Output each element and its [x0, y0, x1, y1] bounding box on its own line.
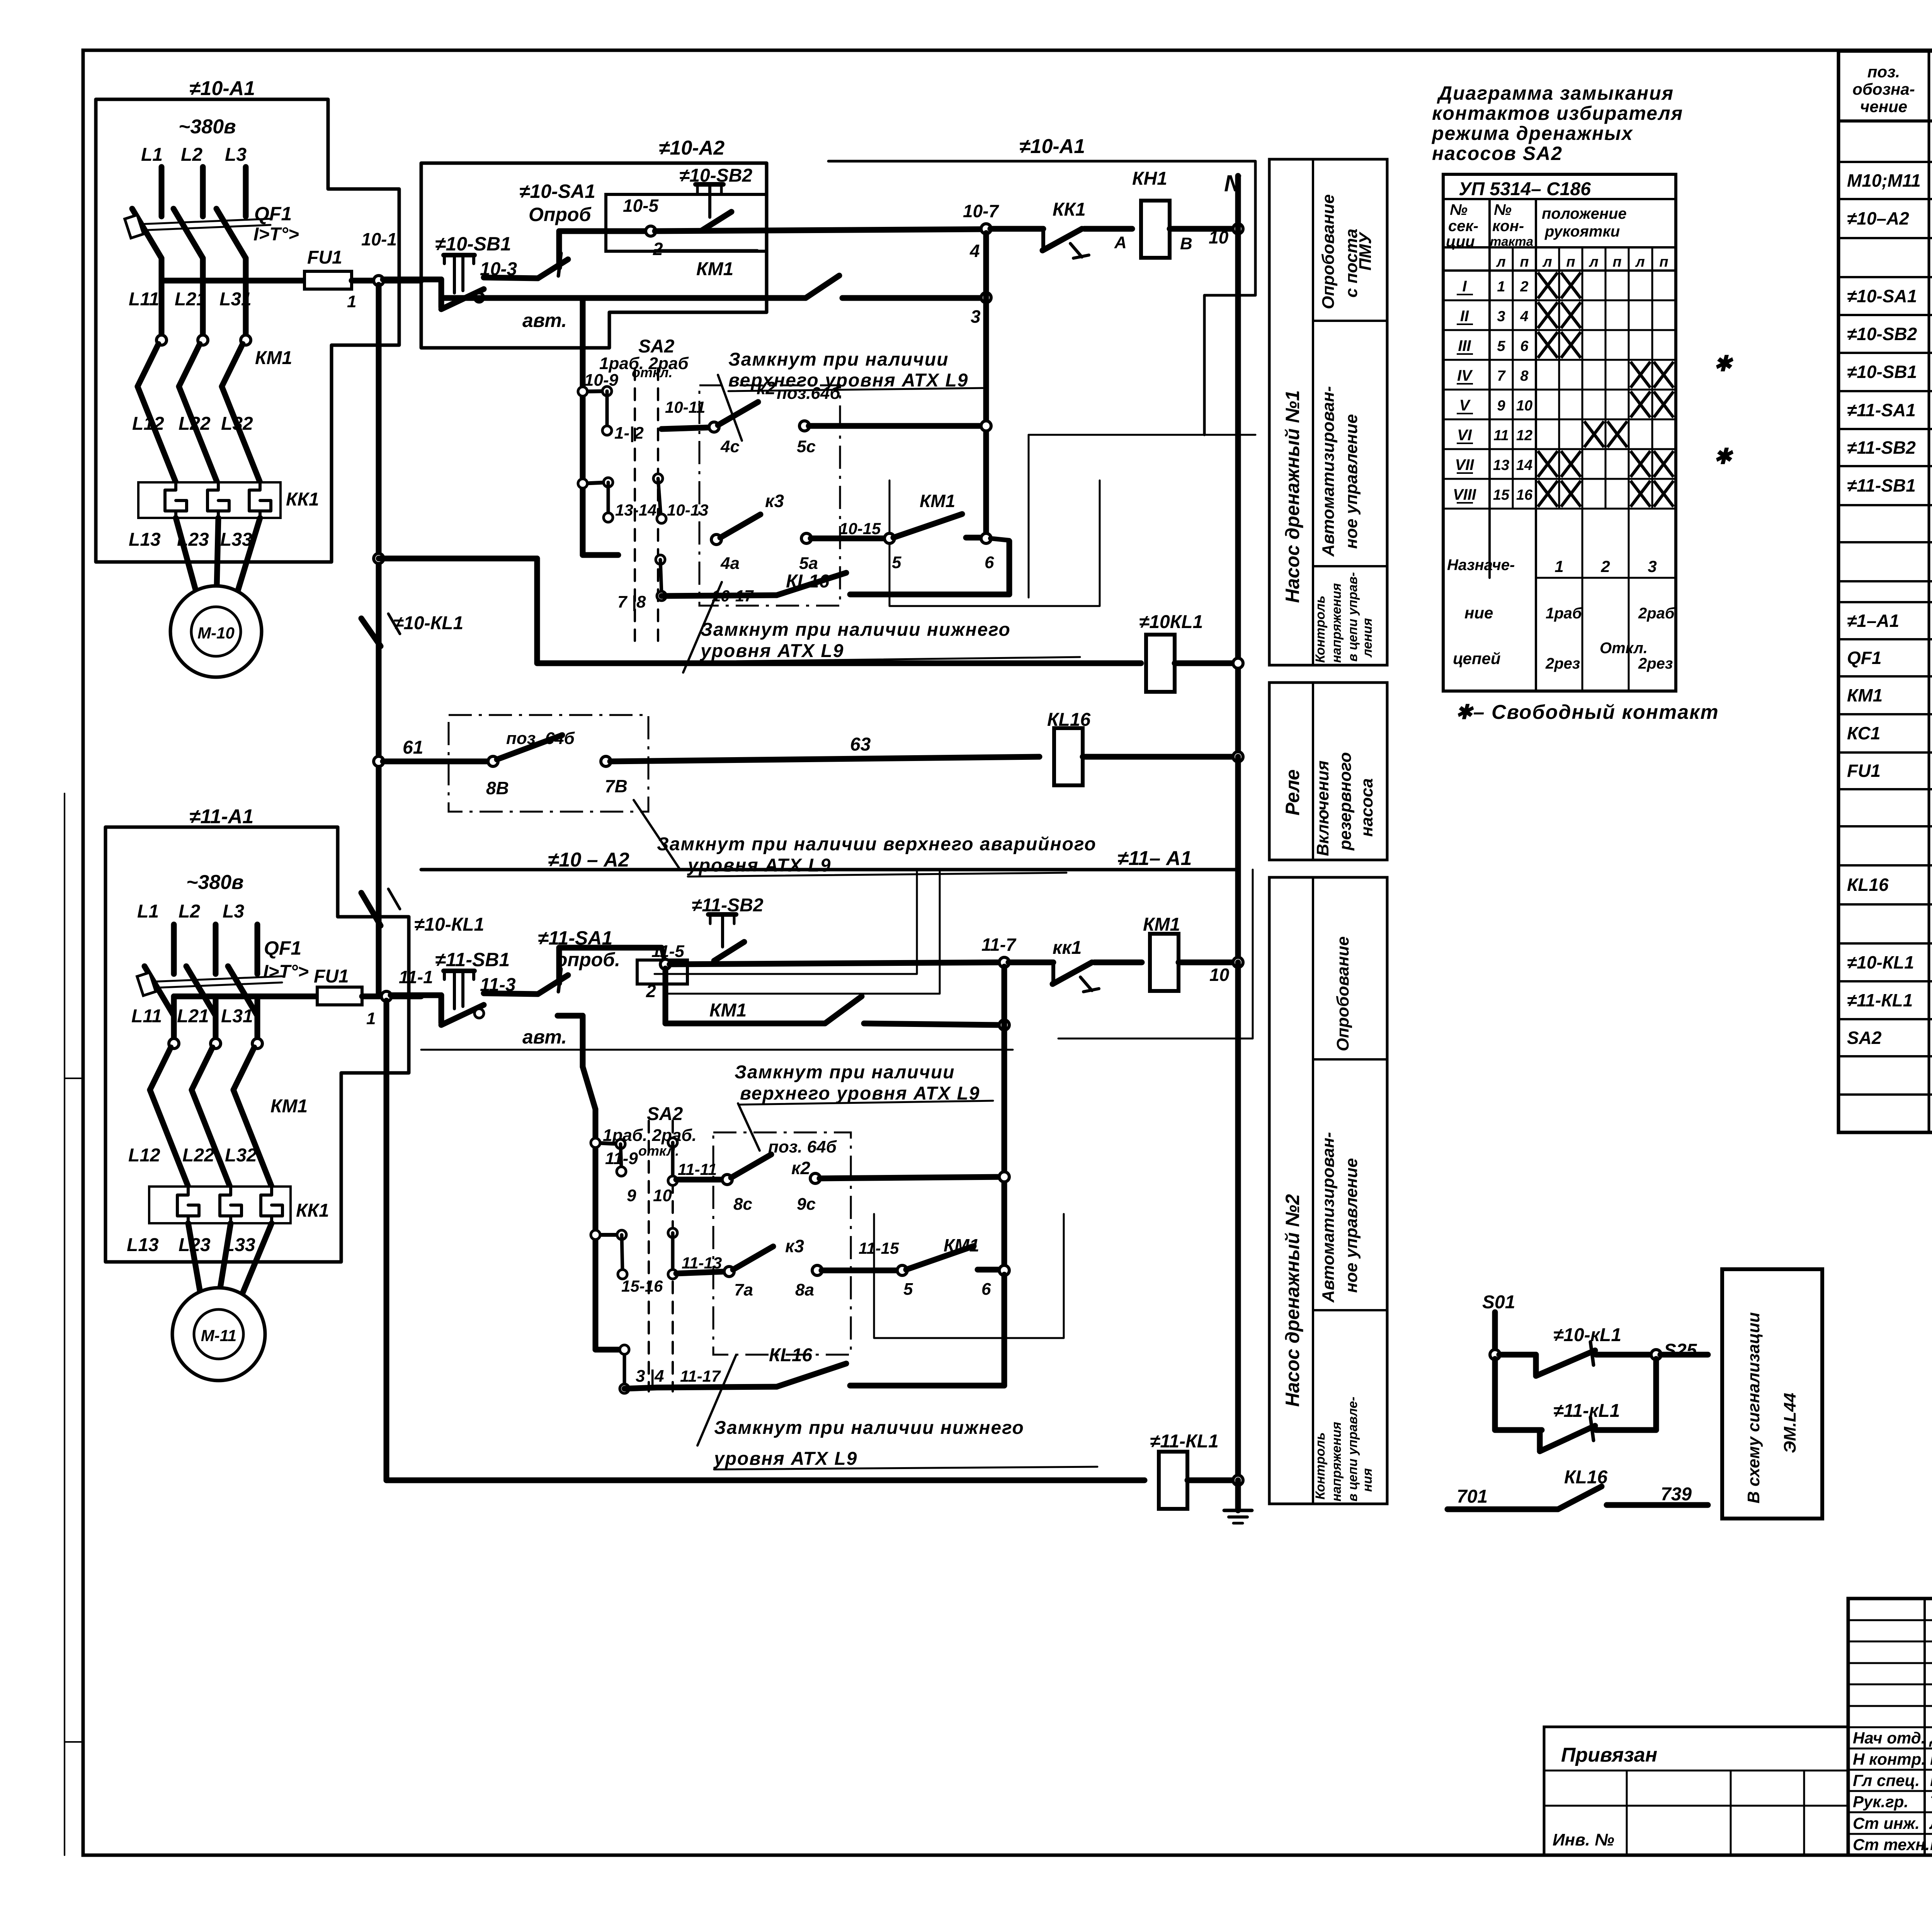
wire node 10-1 to SB1	[383, 277, 441, 283]
svg-text:Замкнут при наличии: Замкнут при наличии	[735, 1062, 955, 1083]
svg-text:Опроб: Опроб	[529, 204, 592, 225]
svg-text:11-1: 11-1	[399, 967, 433, 987]
svg-text:≠11-SA1: ≠11-SA1	[538, 927, 612, 949]
svg-text:13: 13	[1493, 457, 1509, 473]
SA2 section II bridge row1	[653, 474, 663, 483]
svg-text:4а: 4а	[720, 554, 740, 573]
svg-text:≠10-кL1: ≠10-кL1	[1553, 1325, 1621, 1345]
node seal row2	[999, 1020, 1009, 1030]
svg-text:2: 2	[653, 239, 663, 259]
note pointer row1 upper	[718, 375, 742, 441]
node 11-15 row2	[897, 1265, 907, 1275]
svg-text:положение: положение	[1542, 205, 1627, 222]
svg-text:15: 15	[1493, 487, 1510, 503]
thermal relay KK1 heaters row1	[138, 482, 281, 518]
circuit breaker QF1 row2 poles	[145, 966, 174, 1016]
svg-text:ное управление: ное управление	[1342, 1158, 1361, 1293]
svg-text:6: 6	[985, 553, 994, 572]
diagram subheader l p cells	[1536, 247, 1676, 248]
band group1 col2 divider a	[1313, 320, 1387, 322]
svg-text:КК1: КК1	[1053, 199, 1086, 220]
parts table outer	[1838, 51, 1932, 1132]
svg-text:2: 2	[646, 981, 656, 1001]
wire phase stub L3 row2	[255, 924, 260, 974]
svg-text:Опробование: Опробование	[1333, 936, 1352, 1051]
level contact k3 row2	[724, 1267, 734, 1277]
pushbutton #10-SB2 (start)	[696, 182, 723, 187]
svg-text:КL16: КL16	[1047, 710, 1091, 730]
wire KM1 pole L3 row2	[255, 996, 260, 1040]
svg-text:Насос дренажный №1: Насос дренажный №1	[1282, 390, 1303, 603]
svg-text:Реле: Реле	[1282, 770, 1303, 815]
svg-text:14: 14	[1516, 457, 1532, 473]
svg-text:QF1: QF1	[1847, 648, 1881, 668]
svg-text:13-14: 13-14	[615, 501, 656, 519]
svg-text:Н контр.: Н контр.	[1853, 1750, 1926, 1768]
svg-text:III: III	[1458, 337, 1471, 354]
node k2-chain row2	[999, 1172, 1009, 1182]
svg-text:напряжения: напряжения	[1329, 583, 1344, 663]
breaker QF1 linkage bar row2	[152, 976, 282, 982]
neutral bus N middle	[1235, 757, 1241, 962]
svg-text:✱: ✱	[1714, 351, 1734, 376]
svg-text:S25: S25	[1664, 1340, 1697, 1361]
svg-text:9: 9	[1497, 398, 1505, 414]
svg-text:15-16: 15-16	[621, 1277, 663, 1295]
enclosure box KM1-auto row2	[874, 1214, 1064, 1338]
svg-text:Контроль: Контроль	[1313, 596, 1328, 663]
svg-text:VI: VI	[1457, 427, 1472, 444]
svg-text:авт.: авт.	[522, 310, 567, 331]
wire S01 to 10-KL1 contact	[1499, 1352, 1536, 1358]
contactor KM1 auto contact row2	[906, 1246, 974, 1270]
svg-text:V: V	[1459, 397, 1471, 414]
motor M-10	[170, 586, 262, 677]
relay coil #10KL1	[1146, 635, 1175, 692]
node 6 row2	[999, 1265, 1009, 1275]
level contact k2 row1	[709, 422, 719, 432]
svg-text:8В: 8В	[486, 778, 509, 798]
svg-text:≠10-КL1: ≠10-КL1	[414, 914, 484, 935]
svg-text:10-1: 10-1	[361, 229, 397, 249]
svg-text:КМ1: КМ1	[709, 1000, 747, 1021]
svg-text:≠11-SB1: ≠11-SB1	[435, 949, 510, 970]
svg-text:4: 4	[1520, 308, 1528, 325]
diagram data rows	[1443, 300, 1676, 301]
wire motor leads row1	[176, 518, 197, 595]
wire coil 11KL1 to N bus	[1187, 1478, 1238, 1483]
svg-text:В: В	[1180, 234, 1192, 253]
svg-text:Включения: Включения	[1313, 761, 1332, 856]
svg-text:ЭМ.L44: ЭМ.L44	[1781, 1393, 1799, 1453]
svg-text:≠10 – А2: ≠10 – А2	[548, 849, 629, 871]
bus 1 vertical (10-1 down)	[376, 285, 382, 995]
svg-text:режима дренажных: режима дренажных	[1431, 123, 1633, 144]
wire phase stub L2 row2	[213, 924, 219, 974]
SA2 dashed position line b row2	[672, 1121, 674, 1391]
svg-text:≠10-КL1: ≠10-КL1	[1847, 952, 1914, 972]
svg-text:КL16: КL16	[786, 571, 830, 592]
wire 11KL1 coil rung	[386, 1478, 1145, 1483]
pushbutton #10-SB1 (stop)	[439, 279, 444, 307]
svg-text:кк1: кк1	[1053, 938, 1082, 958]
node 2 row1	[646, 226, 656, 236]
svg-text:3 |4: 3 |4	[636, 1367, 664, 1386]
diagram table outer	[1443, 174, 1676, 691]
node 10 row1	[1233, 224, 1243, 234]
wire motor leads row2	[188, 1223, 201, 1297]
wire coil to node 10 row2	[1179, 960, 1238, 965]
wire branch down S01	[1492, 1359, 1498, 1430]
node 11KL1-N	[1233, 1475, 1243, 1485]
svg-text:2рез: 2рез	[1545, 655, 1580, 672]
svg-text:Замкнут при наличии: Замкнут при наличии	[728, 349, 949, 370]
level contact 8V-7V	[488, 756, 498, 766]
svg-text:1: 1	[1497, 279, 1505, 295]
wire phase stub L1 row2	[171, 924, 177, 974]
wire node2 to node 11-7	[670, 962, 1000, 964]
selector #10-SA1 avt branch	[580, 298, 586, 392]
svg-text:11-7: 11-7	[981, 935, 1017, 955]
svg-text:≠1–А1: ≠1–А1	[1847, 611, 1899, 631]
svg-text:4с: 4с	[720, 437, 740, 456]
svg-text:11-11: 11-11	[678, 1160, 717, 1178]
svg-text:к2: к2	[791, 1158, 810, 1178]
svg-text:≠11-SB2: ≠11-SB2	[692, 895, 764, 916]
svg-text:1: 1	[366, 1009, 376, 1028]
svg-text:L13: L13	[127, 1235, 159, 1255]
note pointer emergency	[634, 800, 680, 870]
svg-text:L33: L33	[220, 529, 252, 550]
wire KM1 pole L2 row1	[200, 281, 206, 336]
svg-text:1: 1	[347, 292, 356, 311]
wire SB1 to SA1	[484, 278, 538, 278]
motor M-11	[172, 1288, 265, 1381]
wire coil to node 10	[1170, 226, 1238, 232]
svg-text:739: 739	[1661, 1484, 1692, 1505]
svg-text:10-7: 10-7	[963, 201, 999, 221]
svg-text:10: 10	[653, 1186, 672, 1205]
svg-text:в цепи управле-: в цепи управле-	[1345, 1397, 1360, 1502]
svg-text:В схему сигнализации: В схему сигнализации	[1744, 1312, 1763, 1503]
wire coil 10KL1 to N bus	[1175, 661, 1238, 666]
svg-text:✱: ✱	[1714, 444, 1734, 468]
svg-text:SА2: SА2	[1847, 1028, 1882, 1048]
node 10-7	[981, 224, 991, 234]
svg-text:насосов SA2: насосов SA2	[1432, 143, 1563, 164]
wire phase stub L2 row1	[200, 167, 206, 216]
svg-text:6: 6	[1520, 338, 1529, 354]
parts table row lines	[1838, 120, 1932, 122]
node 3 row1	[981, 293, 991, 303]
wire node 11-1 to SB1 row2	[391, 993, 441, 998]
svg-text:Инв. №: Инв. №	[1553, 1830, 1614, 1849]
svg-text:3: 3	[1648, 557, 1656, 575]
enclosure box #11-A1 (motor 11 feeder)	[105, 827, 409, 1262]
enclosure edge c row2 (#11-A1 right)	[1058, 870, 1253, 1039]
wire 701 rung	[1447, 1507, 1558, 1512]
wire phase stub L3 row1	[243, 167, 249, 216]
svg-text:FU1: FU1	[314, 966, 349, 987]
svg-text:авт.: авт.	[522, 1026, 567, 1048]
svg-text:≠10–А2: ≠10–А2	[1847, 208, 1909, 228]
enclosure box #10-A1 (motor 10 feeder)	[96, 99, 399, 562]
svg-text:FU1: FU1	[307, 247, 342, 268]
node S25	[1651, 1350, 1661, 1360]
svg-text:к3: к3	[765, 491, 784, 511]
svg-text:к3: к3	[785, 1236, 804, 1256]
svg-text:КМ1: КМ1	[1143, 914, 1180, 935]
svg-text:КМ1: КМ1	[270, 1096, 308, 1117]
SA2 section bridge 3-4 row2	[623, 1350, 626, 1385]
svg-text:л: л	[1542, 254, 1552, 270]
wire KM1 pole L1 row1	[159, 281, 165, 336]
node 6 row1	[981, 533, 991, 543]
dash-dot box poz.64b middle (emergency level)	[449, 715, 648, 812]
left margin line	[64, 793, 65, 1855]
svg-text:Нач отд.: Нач отд.	[1853, 1729, 1925, 1747]
wire 11-11 to k2 rung row2	[676, 1177, 723, 1183]
wire phase stub L1 row1	[159, 167, 165, 216]
svg-text:Опробование: Опробование	[1319, 194, 1338, 309]
svg-text:L1: L1	[137, 901, 159, 922]
svg-text:КК1: КК1	[286, 489, 319, 510]
node 10-1	[374, 276, 384, 286]
svg-text:L21: L21	[177, 1006, 209, 1027]
selector #10-SA1 oprob stub	[556, 231, 562, 267]
svg-text:1-|2: 1-|2	[614, 424, 644, 443]
wire node2 to node 10-7	[655, 229, 982, 231]
enclosure box KM1-auto row1	[889, 480, 1100, 606]
wire bridge3-4 to KL16 rung row2	[624, 1388, 657, 1389]
SA2 section bridge 15-16 row2	[595, 1233, 622, 1237]
svg-text:КL16: КL16	[1564, 1467, 1608, 1488]
svg-text:S01: S01	[1482, 1292, 1515, 1313]
relay contact KL16 bottom	[1558, 1486, 1602, 1509]
svg-text:2: 2	[1600, 557, 1610, 575]
svg-text:М-11: М-11	[201, 1326, 237, 1345]
svg-text:2рез: 2рез	[1638, 655, 1673, 672]
svg-text:701: 701	[1457, 1486, 1488, 1507]
svg-text:9с: 9с	[797, 1195, 816, 1214]
svg-text:п: п	[1612, 254, 1621, 270]
svg-text:L11: L11	[131, 1006, 162, 1027]
svg-text:насоса: насоса	[1357, 778, 1376, 837]
svg-text:в цепи управ-: в цепи управ-	[1345, 572, 1360, 662]
svg-text:L11: L11	[129, 289, 159, 310]
thermal relay KK1 heaters row2	[149, 1187, 291, 1223]
relay contact KL16 row1	[777, 573, 846, 595]
svg-text:≠11-КL1: ≠11-КL1	[1847, 990, 1913, 1010]
SA2 section bridge 11-13 row2	[668, 1228, 677, 1238]
wire 10-11 to k2 rung	[662, 427, 709, 429]
svg-text:рукоятки: рукоятки	[1544, 223, 1620, 240]
circuit breaker QF1 row1 poles	[132, 209, 162, 258]
svg-text:КК1: КК1	[296, 1200, 329, 1221]
breaker QF1 linkage bar row1	[140, 219, 270, 224]
diagram table header UP5314-C186	[1443, 198, 1676, 200]
note pointer row2 upper	[738, 1103, 760, 1151]
left margin tick 1	[65, 1078, 83, 1079]
SA2 section bridge 11-11 row2	[668, 1138, 677, 1147]
title block outer	[1848, 1599, 1932, 1855]
svg-text:11: 11	[1493, 427, 1509, 444]
dash-dot box poz.64b row1 (level switch)	[699, 385, 840, 606]
svg-text:Автоматизирован-: Автоматизирован-	[1319, 1132, 1338, 1303]
enclosure box 10-5 terminal	[606, 194, 767, 251]
svg-text:опроб.: опроб.	[556, 949, 620, 970]
svg-text:ПМУ: ПМУ	[1356, 232, 1375, 271]
svg-text:М-10: М-10	[197, 624, 235, 642]
SA2 dashed position line a row1	[634, 368, 636, 641]
svg-text:L22: L22	[179, 414, 211, 434]
svg-text:№: №	[1494, 201, 1512, 218]
contactor KM1 auto contact row1	[893, 514, 962, 538]
wire L11 bus row2	[174, 994, 317, 999]
svg-text:≠11-кL1: ≠11-кL1	[1553, 1401, 1620, 1421]
band group3 col2 divider b	[1313, 1309, 1387, 1311]
svg-text:≠11– А1: ≠11– А1	[1117, 847, 1192, 870]
svg-text:Рук.гр.: Рук.гр.	[1853, 1793, 1908, 1811]
svg-text:10-9: 10-9	[584, 371, 619, 390]
relay contact #11-KL1 bottom	[1537, 1430, 1543, 1450]
svg-text:≠11-А1: ≠11-А1	[189, 805, 253, 828]
svg-text:обозна-: обозна-	[1852, 80, 1915, 98]
svg-text:Привязан: Привязан	[1561, 1744, 1657, 1766]
selector #11-SA1 blade	[538, 975, 568, 994]
svg-text:~380в: ~380в	[186, 871, 244, 894]
band group2 box (rele)	[1269, 683, 1387, 860]
relay contact #10-KL1 on bus1 lower	[361, 893, 381, 926]
SA2 section IV bridge row1	[656, 555, 665, 564]
selector #11-SA1 oprob stub	[556, 948, 562, 983]
node 11-7	[999, 957, 1009, 967]
wire vertical chain 10-7 down row1	[983, 233, 989, 540]
contactor KM1 main contacts row1	[156, 335, 167, 345]
wire SB1 to SA1 row2	[484, 993, 538, 994]
selector #11-SA1 avt branch	[558, 1013, 583, 1019]
svg-text:КL16: КL16	[1847, 875, 1889, 895]
svg-text:М10;М11: М10;М11	[1847, 170, 1921, 191]
svg-text:I: I	[1462, 278, 1467, 295]
relay contact KL16 row2	[777, 1364, 846, 1387]
svg-text:7а: 7а	[734, 1280, 753, 1299]
svg-text:8с: 8с	[733, 1195, 752, 1214]
privyazan box	[1544, 1727, 1848, 1855]
svg-text:такта: такта	[1490, 234, 1533, 249]
selector SA2 wire avt row1	[580, 392, 586, 555]
svg-text:61: 61	[403, 737, 423, 758]
SA2 section I bridge row1	[583, 391, 607, 392]
node 11-1	[381, 991, 391, 1001]
svg-text:4: 4	[969, 241, 980, 261]
svg-text:поз.: поз.	[1867, 63, 1900, 81]
svg-text:Откл.: Откл.	[1600, 640, 1648, 657]
svg-text:1раб: 1раб	[1546, 605, 1582, 622]
level contact k3 row1	[711, 535, 721, 545]
svg-text:10: 10	[1209, 227, 1229, 247]
wire 61 rung	[383, 759, 489, 764]
svg-text:л: л	[1496, 254, 1506, 270]
title stacked rows grid	[1848, 1619, 1932, 1621]
svg-text:9: 9	[627, 1186, 636, 1205]
contactor KM1 aux seal-in contact row2	[663, 969, 668, 1023]
svg-text:контактов избирателя: контактов избирателя	[1432, 102, 1683, 124]
svg-text:КL16: КL16	[769, 1345, 813, 1365]
svg-text:Ст техн.: Ст техн.	[1853, 1835, 1930, 1854]
neutral bus N vertical	[1235, 229, 1241, 761]
svg-text:≠10-А1: ≠10-А1	[189, 77, 255, 100]
node KL16-N	[1233, 752, 1243, 762]
parts table column lines	[1928, 51, 1930, 1132]
svg-text:сек-: сек-	[1448, 218, 1478, 235]
svg-text:≠10-А1: ≠10-А1	[1019, 135, 1085, 158]
svg-text:10: 10	[1209, 965, 1230, 985]
svg-text:L3: L3	[223, 901, 244, 922]
breaker QF1 linkage handle row2	[137, 972, 156, 996]
wire KM1 pole L1 row2	[171, 996, 177, 1040]
fuse FU1 row2	[317, 987, 362, 1005]
svg-text:I>T°>: I>T°>	[253, 224, 299, 245]
svg-text:5: 5	[1497, 338, 1505, 354]
selector SA2 wire avt row2	[593, 1109, 599, 1350]
svg-text:≠10-SB2: ≠10-SB2	[679, 165, 752, 186]
svg-text:КМ1: КМ1	[944, 1235, 979, 1255]
pushbutton #11-SB1 (stop)	[439, 995, 444, 1023]
band group3 col2 divider a	[1313, 1058, 1387, 1061]
svg-text:11-17: 11-17	[680, 1367, 721, 1385]
wire vertical chain 11-7 down row2	[1002, 967, 1007, 1272]
ground symbol	[1235, 1480, 1241, 1510]
svg-text:КС1: КС1	[1847, 723, 1880, 743]
svg-text:КМ1: КМ1	[1847, 685, 1883, 705]
neutral bus N row2	[1235, 962, 1241, 1480]
svg-text:IV: IV	[1457, 367, 1473, 384]
thermal contact KK1 row2 (NC)	[1009, 960, 1053, 965]
svg-text:≠10-SA1: ≠10-SA1	[519, 180, 595, 202]
svg-text:L13: L13	[129, 529, 161, 550]
svg-text:Полякова: Полякова	[1930, 1835, 1932, 1854]
svg-text:L2: L2	[179, 901, 200, 922]
band group1 box (pump drain No1)	[1269, 159, 1387, 665]
svg-text:Насос дренажный №2: Насос дренажный №2	[1282, 1194, 1303, 1407]
svg-text:≠10-КL1: ≠10-КL1	[393, 613, 463, 633]
SA2 dashed position line b row1	[657, 368, 659, 641]
svg-text:3: 3	[1497, 308, 1505, 325]
svg-text:63: 63	[850, 734, 871, 755]
relay coil KH1 (KM1) row1	[1141, 201, 1170, 258]
svg-text:5с: 5с	[797, 437, 816, 456]
wire branch to node S25	[1653, 1359, 1659, 1430]
svg-text:11-5: 11-5	[651, 942, 684, 961]
thermal contact KK1 row1 (NC)	[990, 226, 1043, 232]
svg-text:уровня АТХ L9: уровня АТХ L9	[700, 641, 844, 661]
band group1 col2 divider b	[1313, 565, 1387, 567]
node 10-15 row1	[884, 533, 895, 543]
svg-text:УП 5314– С186: УП 5314– С186	[1459, 179, 1591, 199]
svg-text:ние: ние	[1464, 604, 1493, 622]
svg-text:№: №	[1450, 201, 1468, 218]
svg-text:п: п	[1566, 254, 1575, 270]
svg-text:уровня АТХ L9: уровня АТХ L9	[687, 855, 831, 876]
svg-text:≠10-А2: ≠10-А2	[659, 137, 724, 159]
node 10KL1-N	[1233, 658, 1243, 668]
node 2 row2	[660, 959, 670, 969]
diagram table header row2 lines	[1443, 246, 1676, 249]
svg-text:чение: чение	[1860, 97, 1907, 116]
svg-text:L22: L22	[182, 1145, 214, 1166]
svg-text:VIII: VIII	[1453, 486, 1476, 503]
